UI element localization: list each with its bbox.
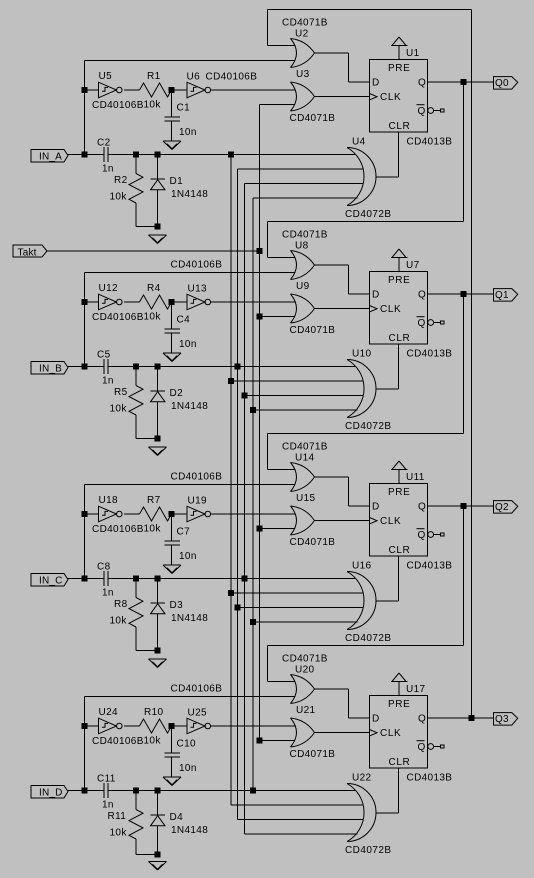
inverter U6 xyxy=(187,72,258,98)
svg-text:Q: Q xyxy=(418,714,426,725)
svg-text:CLR: CLR xyxy=(389,333,411,344)
svg-text:R4: R4 xyxy=(147,283,161,294)
connector Q3 xyxy=(494,713,518,726)
svg-text:R2: R2 xyxy=(114,175,128,186)
wire xyxy=(315,476,349,478)
svg-text:U24: U24 xyxy=(99,707,118,718)
capacitor C1 xyxy=(165,90,197,141)
node xyxy=(229,152,234,157)
svg-text:R10: R10 xyxy=(144,707,163,718)
svg-text:10k: 10k xyxy=(110,616,128,627)
svg-text:CLK: CLK xyxy=(380,304,401,315)
node xyxy=(82,512,87,517)
wire xyxy=(85,60,296,62)
node xyxy=(134,788,139,793)
wire xyxy=(348,265,350,294)
svg-text:CD40106B: CD40106B xyxy=(92,312,144,323)
wire xyxy=(315,520,370,522)
svg-text:CD4071B: CD4071B xyxy=(282,654,328,665)
node xyxy=(469,716,474,721)
wire xyxy=(315,264,349,266)
svg-text:Q: Q xyxy=(418,78,426,89)
svg-text:IN_B: IN_B xyxy=(39,363,62,374)
wire xyxy=(260,528,296,530)
pin Qbar xyxy=(428,532,444,538)
svg-text:Q: Q xyxy=(418,106,426,117)
wire xyxy=(245,395,364,397)
node xyxy=(134,576,139,581)
svg-text:10k: 10k xyxy=(110,404,128,415)
bus line Takt xyxy=(259,105,261,741)
wire xyxy=(315,732,370,734)
wire xyxy=(108,578,355,580)
wire Takt xyxy=(47,250,260,252)
connector IN_C xyxy=(31,574,68,587)
svg-text:CD4071B: CD4071B xyxy=(290,537,336,548)
svg-text:R7: R7 xyxy=(147,495,161,506)
inverter U12 xyxy=(92,283,144,323)
wire xyxy=(398,132,400,177)
wire xyxy=(172,301,188,303)
node xyxy=(242,576,247,581)
diode D1 xyxy=(151,155,209,227)
wire xyxy=(172,725,188,727)
svg-text:CLR: CLR xyxy=(389,121,411,132)
wire xyxy=(376,812,399,814)
inverter U18 xyxy=(92,495,144,535)
svg-text:CD4071B: CD4071B xyxy=(290,749,336,760)
svg-text:U2: U2 xyxy=(295,29,309,40)
wire xyxy=(84,61,86,155)
node xyxy=(169,300,174,305)
flip-flop U7 xyxy=(370,272,453,360)
wire xyxy=(124,301,139,303)
node xyxy=(134,152,139,157)
wire xyxy=(267,434,269,470)
wire xyxy=(85,725,99,727)
connector Q0 xyxy=(494,77,518,90)
capacitor C8 xyxy=(97,562,114,599)
or-gate U2 xyxy=(282,18,328,68)
wire xyxy=(398,344,400,389)
ground xyxy=(149,862,167,871)
pin Qbar xyxy=(428,320,444,326)
svg-text:PRE: PRE xyxy=(388,487,410,498)
wire xyxy=(315,308,370,310)
wire xyxy=(211,89,295,91)
wire xyxy=(68,790,104,792)
wire xyxy=(348,477,350,506)
inverter U24 xyxy=(92,707,144,747)
svg-text:U25: U25 xyxy=(188,708,207,719)
svg-text:U16: U16 xyxy=(352,561,371,572)
wire xyxy=(349,293,370,295)
wire xyxy=(238,168,364,170)
svg-text:10k: 10k xyxy=(144,736,162,747)
wire xyxy=(68,578,104,580)
wire xyxy=(172,89,188,91)
svg-text:Q: Q xyxy=(418,530,426,541)
node xyxy=(257,249,262,254)
wire xyxy=(253,197,358,199)
or-gate U8 xyxy=(282,230,328,280)
svg-text:U13: U13 xyxy=(188,284,207,295)
svg-text:1n: 1n xyxy=(102,164,114,175)
flip-flop U1 xyxy=(370,60,453,148)
wire xyxy=(463,294,465,434)
wire xyxy=(85,484,296,486)
wire xyxy=(268,645,464,647)
node xyxy=(229,591,234,596)
svg-text:U12: U12 xyxy=(99,283,118,294)
svg-text:1N4148: 1N4148 xyxy=(171,613,208,624)
svg-text:U11: U11 xyxy=(406,472,425,483)
svg-text:U17: U17 xyxy=(406,684,425,695)
wire xyxy=(85,301,99,303)
node xyxy=(82,576,87,581)
resistor R8 xyxy=(110,579,158,651)
svg-text:C2: C2 xyxy=(97,138,111,149)
wire xyxy=(428,505,494,507)
capacitor C11 xyxy=(97,774,116,811)
svg-text:CLR: CLR xyxy=(389,545,411,556)
capacitor C7 xyxy=(165,514,197,565)
svg-text:1n: 1n xyxy=(102,588,114,599)
wire xyxy=(267,646,269,682)
bus line net A xyxy=(230,155,232,806)
power U11 xyxy=(391,461,425,484)
wire xyxy=(238,819,364,821)
svg-text:CD40106B: CD40106B xyxy=(171,472,223,483)
inverter U13 xyxy=(187,284,211,310)
node xyxy=(82,152,87,157)
resistor R10 xyxy=(140,707,172,747)
wire xyxy=(268,257,296,259)
svg-text:CD40106B: CD40106B xyxy=(92,100,144,111)
svg-text:Q1: Q1 xyxy=(495,290,509,301)
wire xyxy=(428,717,494,719)
wire xyxy=(85,89,99,91)
svg-text:CD4072B: CD4072B xyxy=(345,209,392,220)
wire xyxy=(348,689,350,718)
node xyxy=(235,364,240,369)
svg-text:U10: U10 xyxy=(352,349,371,360)
svg-text:C10: C10 xyxy=(177,739,196,750)
svg-text:U6: U6 xyxy=(187,72,201,83)
wire xyxy=(85,513,99,515)
svg-text:CD4072B: CD4072B xyxy=(345,845,392,856)
wire xyxy=(463,506,465,646)
svg-text:IN_D: IN_D xyxy=(39,787,63,798)
connector Q1 xyxy=(494,289,518,302)
wire xyxy=(268,469,296,471)
wire xyxy=(260,104,296,106)
resistor R11 xyxy=(108,791,158,855)
capacitor C4 xyxy=(165,302,197,353)
or-gate U4 xyxy=(345,137,392,221)
connector Takt xyxy=(13,245,47,259)
or-gate U9 xyxy=(290,281,336,336)
svg-text:D4: D4 xyxy=(170,812,184,823)
bus line net B xyxy=(237,169,239,820)
svg-text:U3: U3 xyxy=(296,69,310,80)
node xyxy=(461,80,466,85)
wire xyxy=(315,688,349,690)
bus line net D xyxy=(252,198,254,791)
node xyxy=(155,788,160,793)
wire xyxy=(238,607,364,609)
node xyxy=(257,526,262,531)
svg-text:Q: Q xyxy=(418,742,426,753)
svg-text:U18: U18 xyxy=(99,495,118,506)
wire xyxy=(108,154,355,156)
node xyxy=(251,620,256,625)
wire xyxy=(376,600,399,602)
or-gate U16 xyxy=(345,561,392,645)
diode D3 xyxy=(151,579,209,651)
svg-text:U5: U5 xyxy=(99,71,113,82)
svg-text:D3: D3 xyxy=(170,600,184,611)
svg-text:IN_A: IN_A xyxy=(39,151,62,162)
svg-text:R5: R5 xyxy=(114,387,128,398)
svg-text:U15: U15 xyxy=(296,493,315,504)
node xyxy=(155,576,160,581)
wire xyxy=(211,513,295,515)
wire xyxy=(348,53,350,82)
svg-text:1N4148: 1N4148 xyxy=(171,401,208,412)
svg-text:Q: Q xyxy=(418,290,426,301)
node xyxy=(82,724,87,729)
ground xyxy=(149,235,167,244)
wire xyxy=(231,380,363,382)
or-gate U10 xyxy=(345,349,392,433)
wire xyxy=(315,96,370,98)
svg-text:R1: R1 xyxy=(147,71,161,82)
wire xyxy=(253,409,358,411)
svg-text:U8: U8 xyxy=(295,241,309,252)
power U17 xyxy=(391,673,425,696)
wire xyxy=(108,790,355,792)
power U7 xyxy=(391,249,420,272)
wire xyxy=(349,717,370,719)
svg-text:U9: U9 xyxy=(296,281,310,292)
node xyxy=(82,300,87,305)
svg-text:CD40106B: CD40106B xyxy=(92,736,144,747)
wire xyxy=(267,10,269,46)
svg-text:U1: U1 xyxy=(406,48,420,59)
svg-text:D: D xyxy=(372,78,380,89)
inverter U5 xyxy=(92,71,144,111)
svg-text:CD40106B: CD40106B xyxy=(206,72,258,83)
svg-text:CD4013B: CD4013B xyxy=(407,773,453,784)
svg-text:CD4071B: CD4071B xyxy=(282,230,328,241)
svg-text:CD40106B: CD40106B xyxy=(171,684,223,695)
wire xyxy=(68,154,104,156)
wire xyxy=(268,681,296,683)
node xyxy=(155,436,160,441)
ground xyxy=(149,447,167,456)
svg-text:10k: 10k xyxy=(110,828,128,839)
svg-text:PRE: PRE xyxy=(388,275,410,286)
wire xyxy=(268,433,464,435)
wire xyxy=(315,52,349,54)
wire xyxy=(253,621,358,623)
svg-text:10k: 10k xyxy=(144,312,162,323)
wire xyxy=(84,485,86,579)
wire xyxy=(84,273,86,367)
svg-text:D1: D1 xyxy=(170,176,184,187)
or-gate U3 xyxy=(290,69,336,124)
wire xyxy=(376,388,399,390)
svg-text:C5: C5 xyxy=(97,350,111,361)
svg-text:CD4071B: CD4071B xyxy=(282,442,328,453)
resistor R2 xyxy=(110,155,158,227)
wire xyxy=(376,176,399,178)
svg-text:CD4072B: CD4072B xyxy=(345,633,392,644)
svg-text:CD40106B: CD40106B xyxy=(171,260,223,271)
bus line net C xyxy=(244,184,246,835)
svg-text:10n: 10n xyxy=(179,339,197,350)
wire xyxy=(172,513,188,515)
svg-text:CD4072B: CD4072B xyxy=(345,421,392,432)
wire xyxy=(268,9,472,11)
svg-text:R8: R8 xyxy=(114,599,128,610)
node xyxy=(169,724,174,729)
node xyxy=(82,88,87,93)
svg-text:C1: C1 xyxy=(177,103,191,114)
wire xyxy=(268,221,464,223)
node xyxy=(155,852,160,857)
wire xyxy=(260,316,296,318)
svg-text:CLK: CLK xyxy=(380,92,401,103)
flip-flop U11 xyxy=(370,484,453,572)
wire xyxy=(245,833,358,835)
or-gate U20 xyxy=(282,654,328,704)
svg-text:1N4148: 1N4148 xyxy=(171,825,208,836)
inverter U19 xyxy=(187,496,211,522)
wire xyxy=(231,592,363,594)
svg-text:CD4013B: CD4013B xyxy=(407,137,453,148)
svg-text:U21: U21 xyxy=(296,705,315,716)
or-gate U21 xyxy=(290,705,336,760)
wire xyxy=(398,556,400,601)
svg-text:1N4148: 1N4148 xyxy=(171,189,208,200)
svg-text:CD4013B: CD4013B xyxy=(407,349,453,360)
wire xyxy=(260,740,296,742)
svg-text:C11: C11 xyxy=(97,774,116,785)
wire xyxy=(124,89,139,91)
svg-text:10k: 10k xyxy=(144,524,162,535)
svg-text:10n: 10n xyxy=(179,763,197,774)
svg-text:1n: 1n xyxy=(102,376,114,387)
wire xyxy=(245,183,364,185)
wire xyxy=(428,81,494,83)
node xyxy=(134,364,139,369)
node xyxy=(155,364,160,369)
svg-text:D2: D2 xyxy=(170,388,184,399)
wire xyxy=(428,293,494,295)
ground xyxy=(163,777,181,786)
ground xyxy=(163,141,181,150)
node xyxy=(82,364,87,369)
wire xyxy=(231,804,363,806)
wire xyxy=(211,725,295,727)
wire xyxy=(84,697,86,791)
svg-text:Q: Q xyxy=(418,502,426,513)
connector IN_B xyxy=(31,362,68,375)
capacitor C5 xyxy=(97,350,114,387)
or-gate U14 xyxy=(282,442,328,492)
svg-text:CD4071B: CD4071B xyxy=(290,325,336,336)
node xyxy=(461,504,466,509)
svg-text:C4: C4 xyxy=(177,315,191,326)
node xyxy=(257,738,262,743)
svg-text:U22: U22 xyxy=(352,773,371,784)
resistor R5 xyxy=(110,367,158,439)
wire xyxy=(124,725,139,727)
ground xyxy=(149,659,167,668)
pin Qbar xyxy=(428,108,444,114)
svg-text:D: D xyxy=(372,714,380,725)
wire ring Q3 feedback xyxy=(471,10,473,719)
wire xyxy=(349,81,370,83)
resistor R4 xyxy=(140,283,172,323)
svg-text:CD40106B: CD40106B xyxy=(92,524,144,535)
svg-text:U20: U20 xyxy=(295,665,314,676)
wire xyxy=(463,82,465,222)
node xyxy=(461,292,466,297)
svg-text:10k: 10k xyxy=(110,192,128,203)
svg-text:U4: U4 xyxy=(352,137,366,148)
wire xyxy=(108,366,355,368)
wire xyxy=(398,768,400,813)
node xyxy=(155,152,160,157)
svg-text:D: D xyxy=(372,290,380,301)
node xyxy=(169,88,174,93)
svg-text:Q: Q xyxy=(418,318,426,329)
node xyxy=(82,788,87,793)
node xyxy=(251,788,256,793)
pin Qbar xyxy=(428,744,444,750)
wire xyxy=(68,366,104,368)
svg-text:10n: 10n xyxy=(179,127,197,138)
node xyxy=(155,648,160,653)
node xyxy=(155,224,160,229)
wire xyxy=(85,696,296,698)
connector IN_A xyxy=(31,150,68,163)
ground xyxy=(163,565,181,574)
node xyxy=(235,605,240,610)
capacitor C2 xyxy=(97,138,114,175)
svg-text:CD4013B: CD4013B xyxy=(407,561,453,572)
or-gate U22 xyxy=(345,773,392,857)
svg-text:1n: 1n xyxy=(102,800,114,811)
svg-text:CLK: CLK xyxy=(380,728,401,739)
svg-text:R11: R11 xyxy=(108,811,127,822)
capacitor C10 xyxy=(165,726,197,777)
svg-text:U7: U7 xyxy=(406,260,420,271)
svg-text:CLK: CLK xyxy=(380,516,401,527)
svg-text:C8: C8 xyxy=(97,562,111,573)
svg-text:C7: C7 xyxy=(177,527,191,538)
wire xyxy=(85,272,296,274)
wire xyxy=(349,505,370,507)
power U1 xyxy=(391,37,420,60)
node xyxy=(242,393,247,398)
resistor R7 xyxy=(140,495,172,535)
svg-text:D: D xyxy=(372,502,380,513)
svg-text:Q0: Q0 xyxy=(495,78,509,89)
